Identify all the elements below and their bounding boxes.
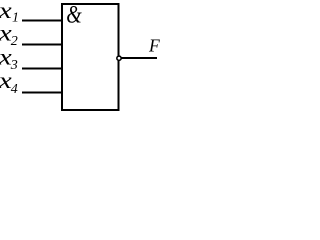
svg-text:2: 2 (11, 34, 18, 49)
wire input x1 (22, 20, 62, 22)
NAND gate U1 body (62, 4, 119, 110)
svg-text:4: 4 (11, 82, 18, 97)
input label x3 (0, 44, 18, 73)
wire input x2 (22, 44, 62, 46)
svg-text:&: & (66, 0, 82, 28)
wire input x4 (22, 92, 62, 94)
svg-text:F: F (148, 36, 160, 56)
input label x1 (0, 0, 19, 25)
wire output F (122, 57, 158, 59)
wire input x3 (22, 68, 62, 70)
input label x4 (0, 68, 18, 97)
input label x2 (0, 21, 18, 49)
output inversion bubble (117, 56, 121, 60)
svg-text:1: 1 (12, 10, 19, 25)
